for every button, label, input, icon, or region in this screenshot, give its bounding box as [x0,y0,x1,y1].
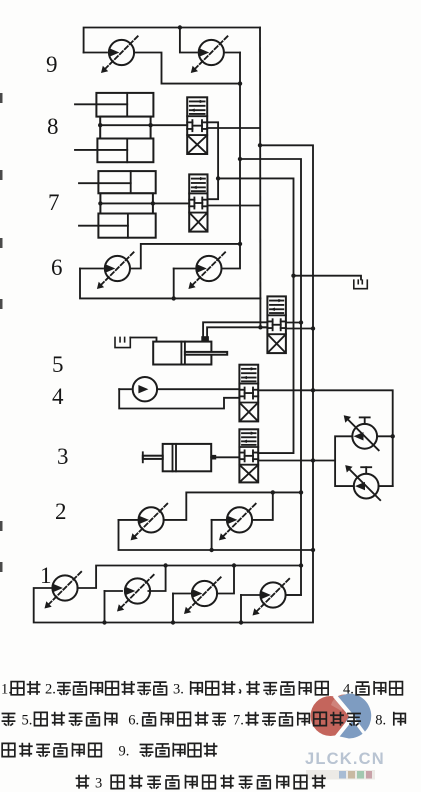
svg-text:4.: 4. [343,682,354,698]
svg-text:7: 7 [48,190,60,215]
svg-text:JLCK.CN: JLCK.CN [305,750,385,768]
svg-text:9: 9 [46,52,58,77]
svg-text:5: 5 [52,352,64,377]
svg-text:5.: 5. [22,712,33,728]
svg-text:6.: 6. [128,712,139,728]
svg-text:6: 6 [51,255,63,280]
svg-text:2.: 2. [45,682,56,698]
svg-text:8: 8 [47,114,59,139]
svg-text:3: 3 [57,444,69,469]
svg-text:1: 1 [40,563,52,588]
svg-text:7.: 7. [233,712,244,728]
svg-text:8.: 8. [375,712,386,728]
svg-text:3.: 3. [173,682,184,698]
svg-text:1.: 1. [1,682,12,698]
svg-text:9.: 9. [119,743,130,759]
svg-text:2: 2 [55,499,67,524]
svg-text:4: 4 [52,384,64,409]
svg-text:3: 3 [95,775,102,791]
